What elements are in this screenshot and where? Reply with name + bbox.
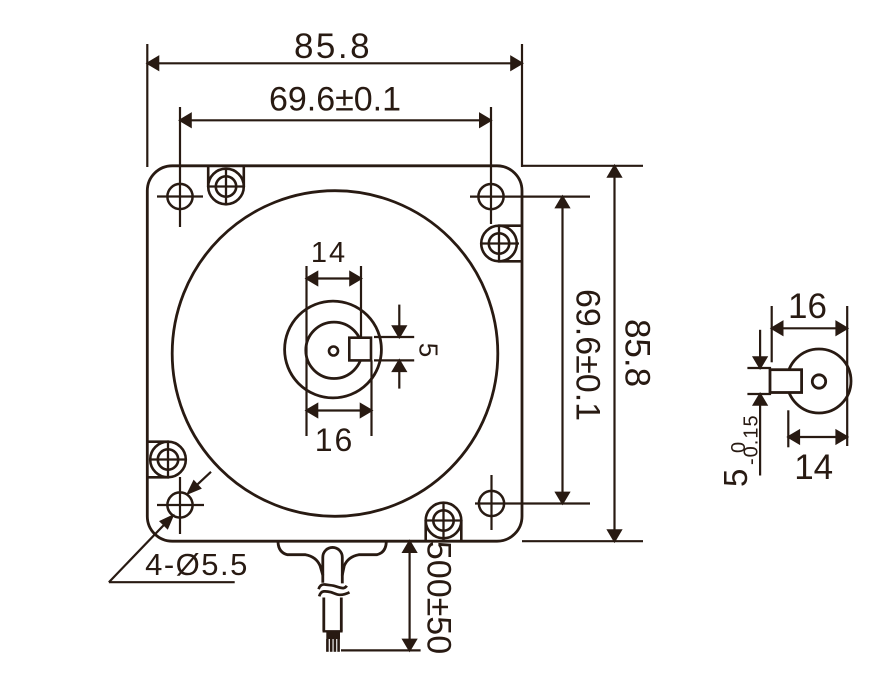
svg-text:69.6±0.1: 69.6±0.1 [569, 289, 607, 421]
svg-text:4-Ø5.5: 4-Ø5.5 [145, 547, 249, 582]
svg-text:500±50: 500±50 [420, 541, 458, 654]
svg-text:14: 14 [311, 237, 347, 269]
svg-text:14: 14 [794, 448, 833, 487]
svg-text:69.6±0.1: 69.6±0.1 [269, 81, 401, 119]
svg-text:5: 5 [414, 343, 444, 357]
svg-text:85.8: 85.8 [294, 27, 372, 66]
svg-text:85.8: 85.8 [618, 319, 657, 387]
svg-text:-0.15: -0.15 [741, 414, 763, 465]
svg-text:5: 5 [717, 469, 754, 487]
svg-text:16: 16 [788, 287, 827, 326]
svg-text:16: 16 [315, 422, 355, 458]
